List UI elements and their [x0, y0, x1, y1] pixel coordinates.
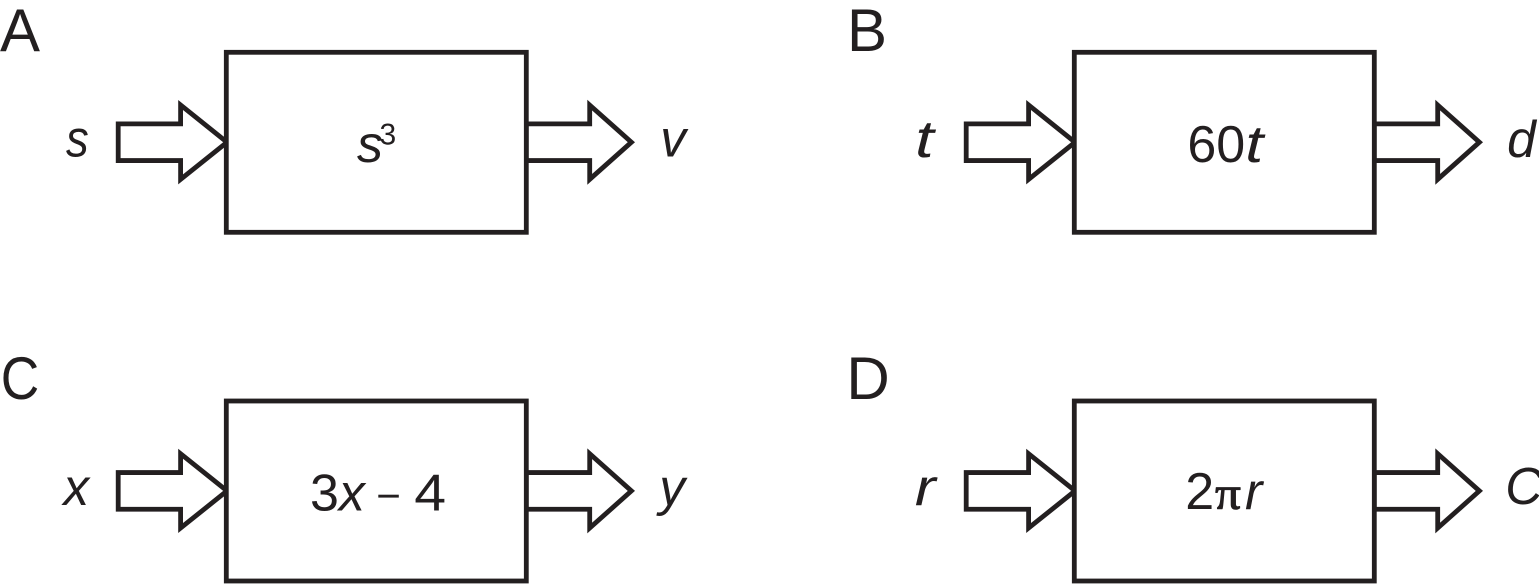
- machine A: output block arrow: [526, 105, 631, 179]
- machine C: function box: [226, 401, 526, 581]
- machine B: input block arrow: [966, 105, 1075, 179]
- machine D: output block arrow: [1374, 454, 1479, 528]
- svg-text:2: 2: [1185, 463, 1214, 521]
- machine C: output variable y: [656, 458, 688, 516]
- machine C: output block arrow: [526, 454, 631, 528]
- machine D: output variable C: [1505, 457, 1539, 515]
- machine A: function box: [226, 52, 526, 232]
- svg-text:A: A: [0, 0, 40, 64]
- svg-text:r: r: [1245, 463, 1265, 521]
- svg-text:y: y: [656, 458, 688, 516]
- svg-text:C: C: [1505, 457, 1539, 515]
- machine A: output variable v: [660, 110, 689, 168]
- machine D: function box: [1074, 401, 1374, 581]
- machine B: function box: [1074, 52, 1374, 232]
- svg-text:s: s: [66, 110, 89, 168]
- machine C: rule 3x - 4: [310, 464, 446, 522]
- machine C: input block arrow: [118, 454, 227, 528]
- machine C: label C: [1, 345, 40, 412]
- svg-text:60t: 60t: [1187, 116, 1266, 174]
- svg-text:C: C: [1, 345, 40, 412]
- svg-text:x: x: [60, 458, 91, 516]
- svg-text:B: B: [847, 0, 887, 64]
- machine D: rule 2*pi*r: [1185, 463, 1265, 521]
- machine B: input variable t: [915, 110, 937, 168]
- machine A: rule s^3: [357, 116, 395, 174]
- machine D: label D: [846, 345, 889, 412]
- machine B: rule 60t: [1187, 116, 1266, 174]
- svg-text:v: v: [660, 110, 689, 168]
- svg-text:d: d: [1507, 110, 1537, 168]
- machine C: input variable x: [60, 458, 91, 516]
- machine D: input variable r: [915, 458, 938, 516]
- svg-text:D: D: [846, 345, 889, 412]
- machine A: input variable s: [66, 110, 89, 168]
- svg-text:s: s: [357, 116, 383, 174]
- machine B: label B: [847, 0, 887, 64]
- machine B: output block arrow: [1374, 105, 1479, 179]
- svg-text:r: r: [915, 458, 938, 516]
- machine D: input block arrow: [966, 454, 1075, 528]
- machine A: input block arrow: [118, 105, 227, 179]
- machine A: label A: [0, 0, 40, 64]
- svg-text:3x: 3x: [310, 464, 367, 522]
- svg-text:t: t: [915, 110, 937, 168]
- machine B: output variable d: [1507, 110, 1537, 168]
- svg-text:4: 4: [414, 464, 446, 522]
